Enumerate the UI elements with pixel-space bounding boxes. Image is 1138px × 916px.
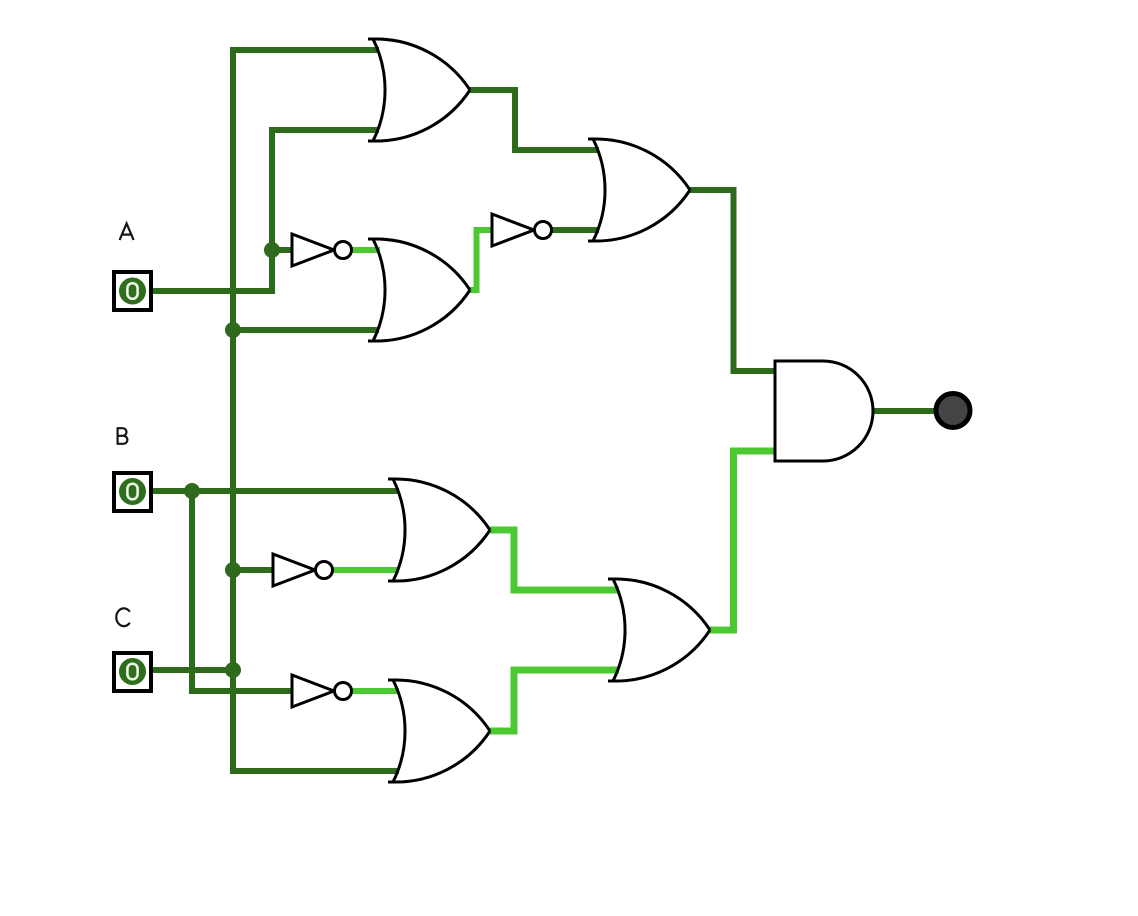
wire B net horizontal to OR4 top input bbox=[153, 488, 399, 494]
wire NOT4 output to OR5 top input bbox=[351, 688, 399, 694]
wire C net to NOT3 input bbox=[233, 567, 275, 573]
junction node on A net at NOT1 input bbox=[264, 242, 280, 258]
junction node on C net at OR2 input bbox=[225, 322, 241, 338]
wire NOT1 output to OR2 top input bbox=[351, 247, 380, 253]
wire B net branch down to NOT4 input bbox=[192, 491, 294, 691]
label B bbox=[117, 428, 128, 444]
junction node on C net at input C bbox=[225, 662, 241, 678]
label A bbox=[120, 224, 134, 241]
wire A net to NOT1 input bbox=[272, 247, 294, 253]
junction node on B net bbox=[184, 483, 200, 499]
wire C net to OR2 bottom input bbox=[233, 327, 379, 333]
or-gate G6 bbox=[608, 579, 710, 681]
input pin A bbox=[114, 272, 151, 310]
wire A net from input A up to OR1 bottom input bbox=[153, 130, 379, 291]
or-gate G4 bbox=[388, 479, 490, 581]
wire OR1 output to OR3 top input bbox=[470, 90, 599, 150]
wire OR3 output to AND top input bbox=[690, 190, 776, 371]
input pin B bbox=[114, 473, 151, 511]
wire OR6 output to AND bottom input bbox=[710, 451, 776, 630]
wire OR2 output to NOT2 input bbox=[470, 230, 494, 290]
label C bbox=[116, 608, 130, 626]
wire AND output to LED bbox=[872, 408, 936, 414]
wire NOT3 output to OR4 bottom input bbox=[332, 567, 399, 573]
not-gate N1 bbox=[292, 234, 352, 266]
not-gate N4 bbox=[292, 675, 352, 707]
or-gate G3 bbox=[588, 139, 690, 241]
wire input C to trunk bbox=[153, 667, 233, 673]
or-gate G2 bbox=[368, 239, 470, 341]
and-gate G7 bbox=[775, 361, 873, 461]
or-gate G5 bbox=[388, 680, 490, 782]
not-gate N2 bbox=[492, 214, 552, 246]
or-gate G1 bbox=[368, 39, 470, 141]
wire OR5 output to OR6 bottom input bbox=[490, 670, 619, 731]
wire OR4 output to OR6 top input bbox=[490, 530, 619, 590]
junction node on C net at NOT3 input bbox=[225, 562, 241, 578]
LED output bbox=[936, 394, 970, 428]
wire C net vertical trunk with corners to OR1 top input and OR5 bottom input bbox=[233, 50, 399, 771]
input pin C bbox=[114, 653, 151, 691]
not-gate N3 bbox=[273, 554, 333, 586]
wire NOT2 output to OR3 bottom input bbox=[551, 227, 599, 233]
